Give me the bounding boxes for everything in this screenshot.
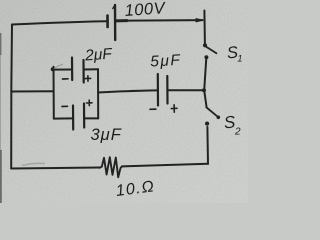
wire left edge vertical bbox=[10, 25, 13, 169]
page edge shadow left lower bbox=[0, 150, 2, 203]
wire right rail S1 to junction bbox=[204, 60, 206, 91]
arrowhead on top wire bbox=[196, 19, 203, 22]
wire 3uF left lead bbox=[54, 117, 73, 119]
polarity minus C1 bbox=[63, 78, 69, 80]
faint tick at cap box corner bbox=[54, 64, 63, 68]
svg-text:1: 1 bbox=[237, 54, 242, 65]
svg-text:3μF: 3μF bbox=[91, 126, 122, 144]
polarity plus C1 bbox=[85, 76, 91, 81]
switch S2 blade bbox=[207, 108, 218, 117]
svg-text:5μF: 5μF bbox=[150, 52, 182, 71]
svg-text:2μF: 2μF bbox=[84, 46, 114, 65]
ink blob cap box corner bbox=[51, 67, 55, 71]
node junction dot bbox=[202, 88, 206, 92]
svg-text:100V: 100V bbox=[124, 0, 167, 20]
battery V1 top tick bbox=[113, 5, 115, 9]
capacitor C2 3uF left plate bbox=[72, 106, 74, 130]
wire top-right horizontal bbox=[116, 19, 203, 22]
wire bottom bbox=[11, 168, 100, 169]
wire 5uF to junction bbox=[168, 89, 204, 91]
wire bottom-right bbox=[122, 164, 208, 167]
wire 3uF right lead bbox=[84, 117, 98, 119]
wire right edge upper bbox=[203, 11, 206, 44]
capacitor box left rail bbox=[53, 67, 55, 119]
polarity plus C3 bbox=[171, 105, 177, 112]
wire right rail junction to S2 bbox=[204, 90, 206, 107]
switch S1 blade bbox=[206, 47, 217, 54]
battery V1 short plate bbox=[106, 16, 109, 28]
wire stub right of battery bbox=[116, 19, 128, 22]
polarity minus C2 bbox=[62, 105, 68, 107]
page edge shadow left middle bbox=[0, 55, 1, 150]
capacitor C1 2uF right plate bbox=[82, 60, 84, 83]
capacitor C2 3uF right plate bbox=[83, 104, 85, 128]
wire 2uF right lead bbox=[84, 68, 99, 70]
wire middle-left bbox=[11, 90, 53, 92]
page edge shadow left upper bbox=[0, 33, 1, 55]
wire right lower vertical bbox=[206, 127, 209, 164]
switch S1 upper terminal dot bbox=[203, 43, 207, 47]
switch S2 lower terminal dot bbox=[205, 122, 209, 126]
capacitor C3 5uF left plate bbox=[157, 74, 159, 106]
switch S1 lower terminal dot bbox=[204, 55, 208, 59]
wire top-left horizontal bbox=[12, 21, 107, 24]
paper background bbox=[0, 0, 248, 203]
switch S2 blade end dot bbox=[217, 116, 221, 120]
battery V1 long plate bbox=[114, 5, 117, 40]
capacitor C1 2uF left plate bbox=[71, 58, 73, 81]
polarity plus C2 bbox=[87, 100, 93, 105]
smudge near bottom-left corner bbox=[22, 163, 45, 165]
svg-text:2: 2 bbox=[234, 127, 241, 138]
wire middle to 5uF bbox=[98, 90, 158, 92]
polarity minus C3 bbox=[150, 108, 156, 110]
capacitor box right rail bbox=[97, 69, 99, 118]
capacitor C3 5uF right plate bbox=[166, 76, 168, 104]
wire 2uF left lead bbox=[54, 69, 73, 71]
resistor R 10ohm bbox=[100, 157, 123, 177]
